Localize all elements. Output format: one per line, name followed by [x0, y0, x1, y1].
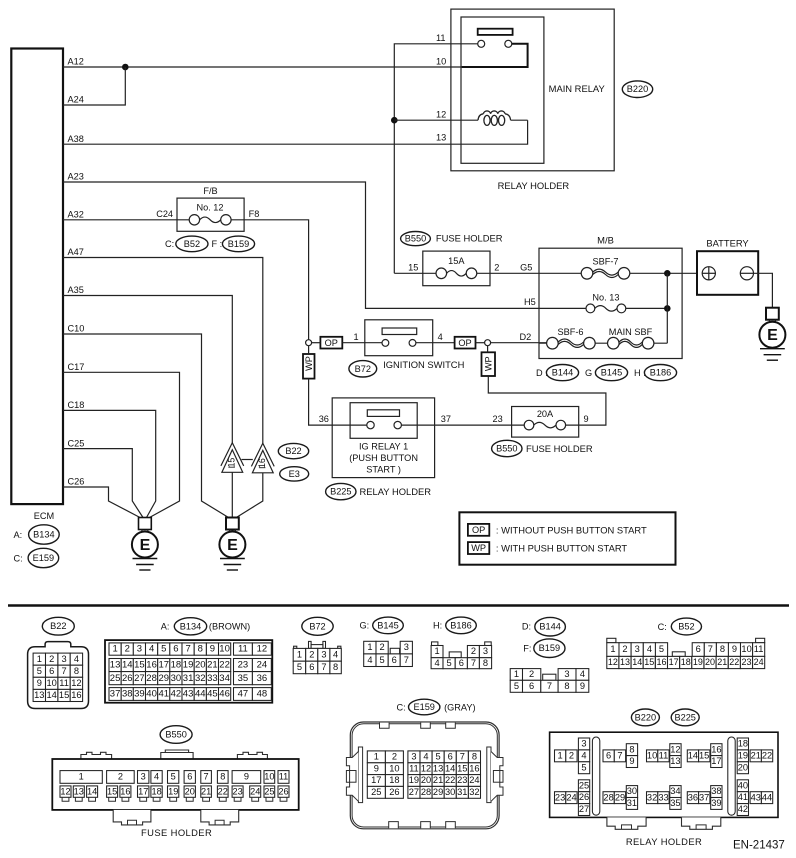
connector label B159 bottom — [534, 639, 565, 658]
B134 pin row 1-10 — [109, 643, 231, 655]
svg-text:B144: B144 — [539, 622, 560, 632]
label pin 12 — [436, 109, 446, 119]
svg-text:A23: A23 — [68, 172, 84, 182]
relay holder pins 30 31 — [626, 786, 637, 810]
label ECM — [34, 511, 54, 521]
svg-text:1: 1 — [367, 642, 372, 652]
svg-text:B52: B52 — [678, 622, 694, 632]
svg-text:2: 2 — [49, 654, 54, 664]
svg-text:FUSE HOLDER: FUSE HOLDER — [436, 233, 503, 244]
battery box — [697, 251, 758, 295]
svg-text:6: 6 — [459, 658, 464, 668]
svg-text:6: 6 — [49, 666, 54, 676]
svg-text:20: 20 — [195, 660, 206, 671]
label No. 13 — [592, 293, 619, 303]
svg-text:2: 2 — [622, 644, 627, 654]
svg-text:C18: C18 — [68, 400, 85, 410]
wire ignition pin 4 to OP — [416, 342, 455, 344]
wire A12 to main relay pin 10 — [63, 66, 462, 68]
svg-text:C:: C: — [397, 702, 406, 712]
connector label B220 — [622, 81, 652, 98]
E159 top notches — [380, 723, 456, 729]
svg-text:1: 1 — [37, 654, 42, 664]
svg-text:B186: B186 — [450, 620, 471, 630]
svg-text:43: 43 — [751, 792, 761, 802]
E159 pin row 25-26 — [367, 786, 403, 798]
svg-text:23: 23 — [741, 657, 751, 667]
ignition contact circle left — [382, 340, 389, 347]
svg-text:12: 12 — [436, 109, 446, 119]
svg-text:41: 41 — [738, 792, 748, 802]
svg-text:M/B: M/B — [597, 235, 614, 246]
svg-text:FUSE HOLDER: FUSE HOLDER — [526, 443, 593, 454]
relay holder pins 23 24 — [555, 792, 578, 804]
svg-text:38: 38 — [711, 786, 721, 796]
svg-text:20: 20 — [738, 762, 748, 772]
svg-text:3: 3 — [404, 642, 409, 652]
svg-text:B159: B159 — [539, 643, 560, 653]
svg-text:29: 29 — [615, 792, 625, 802]
svg-text:19: 19 — [409, 775, 419, 785]
B52 pin row 6-11 — [692, 643, 764, 657]
svg-text:EN-21437: EN-21437 — [733, 840, 785, 852]
svg-text:17: 17 — [159, 660, 170, 671]
ignition switch bar — [382, 328, 417, 335]
svg-text:9: 9 — [244, 772, 249, 782]
label pin 15 — [408, 263, 418, 273]
svg-text:2: 2 — [569, 750, 574, 760]
svg-text:D:: D: — [522, 622, 531, 632]
legend OP box — [468, 524, 489, 536]
svg-text:2: 2 — [118, 772, 123, 782]
svg-text:2: 2 — [125, 644, 130, 655]
wire triangle 15 to ground — [231, 472, 233, 517]
svg-text:3: 3 — [141, 772, 146, 782]
OP box right — [455, 337, 476, 349]
E159 pin row 9-10 — [367, 763, 403, 775]
svg-text:6: 6 — [309, 662, 314, 672]
relay holder pins 32 33 — [647, 792, 670, 804]
relay holder pins 12 13 — [670, 744, 681, 768]
svg-text:7: 7 — [204, 772, 209, 782]
label SBF-6 — [557, 327, 583, 337]
svg-text:C:: C: — [165, 239, 174, 249]
svg-text:29: 29 — [159, 673, 170, 684]
fuse box F/B No.12 — [177, 198, 244, 231]
svg-text:13: 13 — [433, 763, 443, 773]
E159 right latch — [487, 747, 503, 803]
label pin 11 — [436, 33, 446, 43]
svg-text:39: 39 — [134, 689, 145, 700]
SBF fuse symbol MAIN SBF — [608, 337, 654, 349]
label A: — [14, 530, 23, 540]
svg-text:19: 19 — [183, 660, 194, 671]
svg-text:E3: E3 — [289, 469, 300, 479]
pin label A23 — [68, 172, 84, 182]
svg-text:13: 13 — [620, 657, 630, 667]
svg-text:: WITH PUSH BUTTON START: : WITH PUSH BUTTON START — [496, 543, 628, 554]
svg-text:2: 2 — [494, 263, 499, 273]
svg-text:C:: C: — [658, 622, 667, 632]
svg-text:8: 8 — [220, 772, 225, 782]
relay coil L1 — [478, 111, 511, 125]
svg-text:MAIN SBF: MAIN SBF — [609, 327, 653, 337]
svg-text:B134: B134 — [180, 621, 201, 631]
svg-text:18: 18 — [171, 660, 182, 671]
relay holder slot bar right — [728, 737, 735, 815]
pin label A35 — [68, 285, 84, 295]
svg-text:7: 7 — [547, 681, 552, 691]
svg-text:C:: C: — [14, 553, 23, 563]
B134 pin row 11-12 — [234, 643, 272, 655]
E159 left latch — [346, 747, 362, 803]
relay holder pins 14 15 — [687, 750, 710, 762]
svg-text:B134: B134 — [33, 530, 54, 540]
relay holder pins 6 7 — [603, 750, 626, 762]
svg-text:6: 6 — [173, 644, 178, 655]
svg-text:15: 15 — [59, 690, 69, 700]
svg-text:18: 18 — [151, 787, 161, 797]
svg-text:26: 26 — [278, 787, 288, 797]
relay holder foot left — [607, 817, 646, 829]
wire A24 tie-up — [63, 67, 125, 105]
svg-text:D2: D2 — [520, 332, 532, 342]
svg-text:17: 17 — [138, 787, 148, 797]
relay armature bar — [478, 29, 513, 35]
svg-text:7: 7 — [460, 751, 465, 761]
label FUSE HOLDER — [141, 827, 212, 838]
label pin 13 — [436, 133, 446, 143]
svg-text:28: 28 — [421, 787, 431, 797]
svg-text:B52: B52 — [184, 239, 200, 249]
wire relay pin 11 — [394, 44, 478, 273]
wire H5 row No.13 output — [626, 307, 668, 309]
svg-text:16: 16 — [656, 657, 666, 667]
fuse holder foot left — [113, 810, 151, 825]
label pin 36 — [319, 414, 329, 424]
svg-text:B145: B145 — [601, 368, 622, 378]
node circle OP/WP right — [485, 340, 491, 346]
svg-text:15: 15 — [408, 263, 418, 273]
wire WP right to 20A fuse pin 9 — [488, 376, 606, 425]
wire WP left down to IG relay 36 — [309, 379, 367, 426]
svg-text:2: 2 — [392, 751, 397, 761]
svg-text:1: 1 — [297, 649, 302, 659]
svg-text:10: 10 — [436, 56, 446, 66]
svg-text:21: 21 — [751, 750, 761, 760]
relay switch contact circle right — [505, 40, 512, 47]
svg-text:1: 1 — [514, 669, 519, 679]
B144/B159 pin row 1-4 — [510, 669, 589, 681]
svg-text:37: 37 — [441, 414, 451, 424]
wire IG relay pin37 to 20A fuse — [401, 424, 524, 426]
B22 pin row 1-4 — [33, 653, 83, 665]
wire battery to ground — [754, 273, 773, 307]
svg-text:20: 20 — [421, 775, 431, 785]
svg-text:B159: B159 — [228, 239, 249, 249]
svg-text:4: 4 — [149, 644, 154, 655]
wire A32 to fuse C24 — [63, 219, 189, 221]
fuse symbol No. 12 — [189, 215, 231, 225]
svg-text:5: 5 — [297, 662, 302, 672]
label D: — [536, 368, 548, 378]
fuse holder top tab right — [237, 752, 267, 759]
wire C10 to ground — [63, 334, 229, 518]
svg-text:RELAY HOLDER: RELAY HOLDER — [626, 836, 702, 847]
svg-text:A:: A: — [14, 530, 23, 540]
svg-text:19: 19 — [738, 750, 748, 760]
fuse holder B550 body — [52, 759, 298, 810]
label M/B — [597, 235, 614, 246]
svg-text:16: 16 — [257, 458, 267, 468]
svg-text:34: 34 — [219, 673, 230, 684]
svg-text:C17: C17 — [68, 362, 85, 372]
svg-text:8: 8 — [198, 644, 203, 655]
label IG RELAY 1 — [349, 442, 418, 475]
wire between shield triangles — [242, 459, 253, 461]
legend WP text — [496, 543, 628, 554]
E159 pin row 27-32 — [408, 786, 481, 798]
connector label E159 bottom — [409, 699, 440, 715]
svg-text:B550: B550 — [496, 444, 517, 454]
svg-text:4: 4 — [647, 644, 652, 654]
svg-text:10: 10 — [47, 678, 57, 688]
svg-text:15: 15 — [699, 750, 709, 760]
svg-text:A47: A47 — [68, 247, 84, 257]
svg-text:28: 28 — [146, 673, 157, 684]
wire OP to ignition pin 1 — [342, 342, 382, 344]
label pin 10 — [436, 56, 446, 66]
svg-text:4: 4 — [438, 332, 443, 342]
pin label C25 — [68, 438, 85, 448]
wire C25 to ground — [63, 449, 143, 518]
svg-text:B220: B220 — [635, 712, 656, 722]
connector label B134 at ECM — [29, 525, 60, 544]
relay switch contact circle left — [478, 40, 485, 47]
svg-text:B22: B22 — [285, 446, 301, 456]
connector label B22 bottom — [42, 617, 74, 635]
label (BROWN) — [209, 622, 250, 632]
svg-text:C10: C10 — [68, 324, 85, 334]
svg-text:24: 24 — [566, 792, 576, 802]
wire C18 to ground — [63, 410, 156, 517]
E159 pin row 19-24 — [408, 775, 481, 787]
svg-text:16: 16 — [71, 690, 81, 700]
svg-text:A24: A24 — [68, 95, 84, 105]
svg-text:FUSE HOLDER: FUSE HOLDER — [141, 827, 212, 838]
relay holder pins 43 44 — [750, 792, 773, 804]
svg-text:14: 14 — [632, 657, 642, 667]
svg-text:13: 13 — [436, 133, 446, 143]
svg-text:5: 5 — [581, 762, 586, 772]
relay holder pins 8 9 — [626, 744, 637, 768]
label H5 — [524, 297, 536, 307]
connector label B550 top — [401, 232, 431, 246]
connector label B52 bottom — [671, 618, 701, 635]
svg-text:E: E — [767, 327, 778, 344]
pin label A32 — [68, 210, 84, 220]
relay holder slot bar left — [592, 737, 599, 815]
svg-text:19: 19 — [168, 787, 178, 797]
svg-text:33: 33 — [658, 792, 668, 802]
label H: — [634, 368, 646, 378]
svg-text:: WITHOUT PUSH BUTTON START: : WITHOUT PUSH BUTTON START — [496, 524, 647, 535]
svg-text:(PUSH BUTTON: (PUSH BUTTON — [349, 453, 418, 463]
svg-text:6: 6 — [696, 644, 701, 654]
relay holder pins 36 37 — [687, 792, 710, 804]
svg-text:20A: 20A — [537, 409, 554, 419]
svg-text:14: 14 — [445, 763, 455, 773]
B134 pin row 23-24 — [234, 659, 272, 672]
svg-text:(BROWN): (BROWN) — [209, 622, 250, 632]
svg-text:A32: A32 — [68, 210, 84, 220]
label pin 37 — [441, 414, 451, 424]
wire fuse 15A to M/B G5 — [477, 272, 582, 274]
B134 pin row 13-22 — [109, 659, 231, 672]
svg-text:B72: B72 — [355, 364, 371, 374]
svg-text:9: 9 — [580, 681, 585, 691]
OP box left — [320, 337, 342, 349]
svg-text:28: 28 — [603, 792, 613, 802]
svg-text:B72: B72 — [309, 621, 325, 631]
svg-text:B220: B220 — [627, 84, 648, 94]
svg-text:30: 30 — [627, 786, 637, 796]
svg-text:A:: A: — [161, 622, 170, 632]
label pin 9 — [584, 414, 589, 424]
label FUSE HOLDER (15A) — [436, 233, 503, 244]
label 20A — [537, 409, 554, 419]
svg-text:25: 25 — [579, 780, 589, 790]
svg-text:B550: B550 — [405, 234, 426, 244]
label F/B — [203, 186, 217, 196]
connector B72 body tabs — [294, 641, 341, 648]
svg-text:21: 21 — [207, 660, 218, 671]
fuse symbol No. 13 — [586, 304, 626, 313]
fuse holder top tab left — [81, 752, 112, 759]
svg-text:16: 16 — [711, 744, 721, 754]
label C: — [658, 622, 667, 632]
svg-text:17: 17 — [371, 775, 381, 785]
svg-text:14: 14 — [688, 750, 698, 760]
svg-text:F :: F : — [212, 239, 223, 249]
legend box — [459, 512, 675, 564]
SBF fuse symbol SBF-6 — [547, 337, 596, 349]
svg-text:2: 2 — [529, 669, 534, 679]
svg-text:3: 3 — [564, 669, 569, 679]
svg-text:15: 15 — [644, 657, 654, 667]
E159 bottom notches — [389, 822, 456, 829]
svg-text:45: 45 — [207, 689, 218, 700]
svg-text:WP: WP — [471, 543, 486, 553]
svg-text:6: 6 — [606, 750, 611, 760]
B22 pin row 13-16 — [33, 689, 83, 701]
svg-text:35: 35 — [670, 798, 680, 808]
E159 pin row 3-8 — [408, 751, 481, 763]
WP box left — [303, 354, 315, 379]
E159 pin row 11-16 — [408, 763, 481, 775]
WP box right — [482, 352, 496, 376]
B186 pin row 1-3 — [431, 646, 492, 658]
svg-text:1: 1 — [558, 750, 563, 760]
main relay inner box — [461, 17, 544, 163]
svg-text:B550: B550 — [165, 730, 186, 740]
SBF fuse symbol SBF-7 — [581, 268, 630, 280]
svg-text:B144: B144 — [552, 368, 573, 378]
svg-text:RELAY HOLDER: RELAY HOLDER — [498, 180, 570, 191]
wire D2 row segments — [539, 342, 667, 344]
svg-text:23: 23 — [493, 414, 503, 424]
svg-text:START ): START ) — [366, 465, 401, 475]
svg-text:E: E — [140, 537, 151, 554]
svg-text:3: 3 — [321, 649, 326, 659]
label IGNITION SWITCH — [383, 359, 464, 370]
connector label B52 top — [176, 236, 208, 252]
svg-text:23: 23 — [555, 792, 565, 802]
connector E159 body — [350, 722, 499, 829]
ground symbol battery ground E — [759, 308, 785, 361]
svg-text:4: 4 — [581, 750, 586, 760]
label pin 4 — [438, 332, 443, 342]
E159 pin row 1-2 — [367, 751, 403, 763]
svg-text:OP: OP — [458, 338, 471, 348]
B72 pin row 5-8 — [293, 661, 341, 674]
connector B22 body — [28, 642, 89, 709]
svg-text:11: 11 — [238, 644, 248, 655]
svg-text:15: 15 — [134, 660, 145, 671]
IG relay outer box B225 — [332, 398, 434, 478]
svg-text:7: 7 — [62, 666, 67, 676]
IG relay bar — [367, 410, 399, 417]
svg-text:22: 22 — [762, 750, 772, 760]
svg-text:43: 43 — [183, 689, 194, 700]
svg-text:4: 4 — [367, 655, 372, 665]
label C24 — [156, 209, 173, 219]
svg-text:IG RELAY 1: IG RELAY 1 — [359, 442, 408, 452]
connector label E3 top — [280, 467, 309, 481]
svg-text:11: 11 — [279, 772, 289, 782]
svg-text:11: 11 — [659, 750, 669, 760]
svg-text:46: 46 — [219, 689, 230, 700]
svg-text:9: 9 — [732, 644, 737, 654]
junction node coil feed — [391, 117, 398, 124]
ground symbol ECM ground E left — [132, 518, 158, 571]
svg-text:20: 20 — [705, 657, 715, 667]
label A: — [161, 622, 170, 632]
svg-text:SBF-7: SBF-7 — [592, 257, 618, 267]
svg-text:10: 10 — [647, 750, 657, 760]
fuse box 20A — [512, 407, 579, 438]
svg-text:5: 5 — [436, 751, 441, 761]
label D2 — [520, 332, 532, 342]
svg-text:31: 31 — [627, 798, 637, 808]
B134 pin row 25-34 — [109, 672, 231, 685]
svg-text:11: 11 — [409, 763, 419, 773]
wire node to OP — [312, 342, 321, 344]
B52 pin row 1-5 — [607, 643, 668, 657]
svg-text:8: 8 — [483, 658, 488, 668]
relay holder pins 10 11 — [647, 750, 670, 762]
svg-text:17: 17 — [669, 657, 679, 667]
fuse box 15A — [423, 251, 490, 286]
connector label B550 bottom — [160, 726, 192, 744]
connector label B145 top — [595, 365, 627, 381]
wire OP right to node — [476, 342, 485, 344]
svg-text:26: 26 — [122, 673, 133, 684]
junction node No.13 output — [664, 305, 671, 312]
IG relay contact circle left — [367, 421, 374, 428]
svg-text:30: 30 — [445, 787, 455, 797]
svg-text:5: 5 — [447, 658, 452, 668]
